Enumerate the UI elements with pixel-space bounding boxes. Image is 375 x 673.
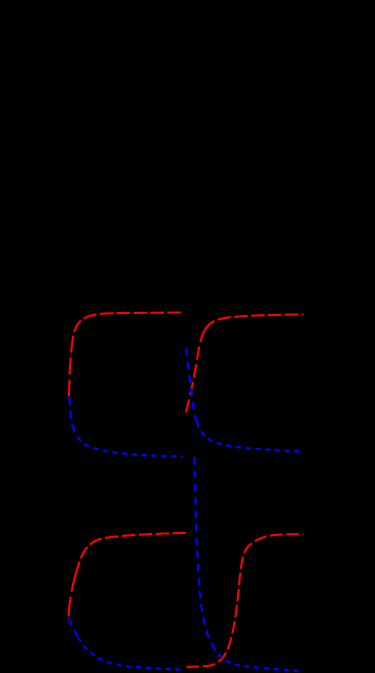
curve: top plot red, pre-perturbation rise to high steady state bbox=[69, 332, 74, 397]
curve: top plot blue, pre-perturbation decay to low steady state bbox=[69, 398, 77, 438]
curve: bottom plot red, suppressed then delayed recovery bbox=[187, 534, 304, 667]
curve: bottom plot blue, perturbation spike decaying back bbox=[195, 457, 213, 646]
curve: top plot red, post-perturbation recovery bbox=[186, 330, 205, 413]
curve: bottom plot red, pre-perturbation rise to high steady state bbox=[69, 575, 76, 617]
curve: top plot blue, post-perturbation relaxation bbox=[186, 349, 197, 423]
curve: bottom plot blue, pre-perturbation decay to low steady state bbox=[69, 618, 78, 638]
